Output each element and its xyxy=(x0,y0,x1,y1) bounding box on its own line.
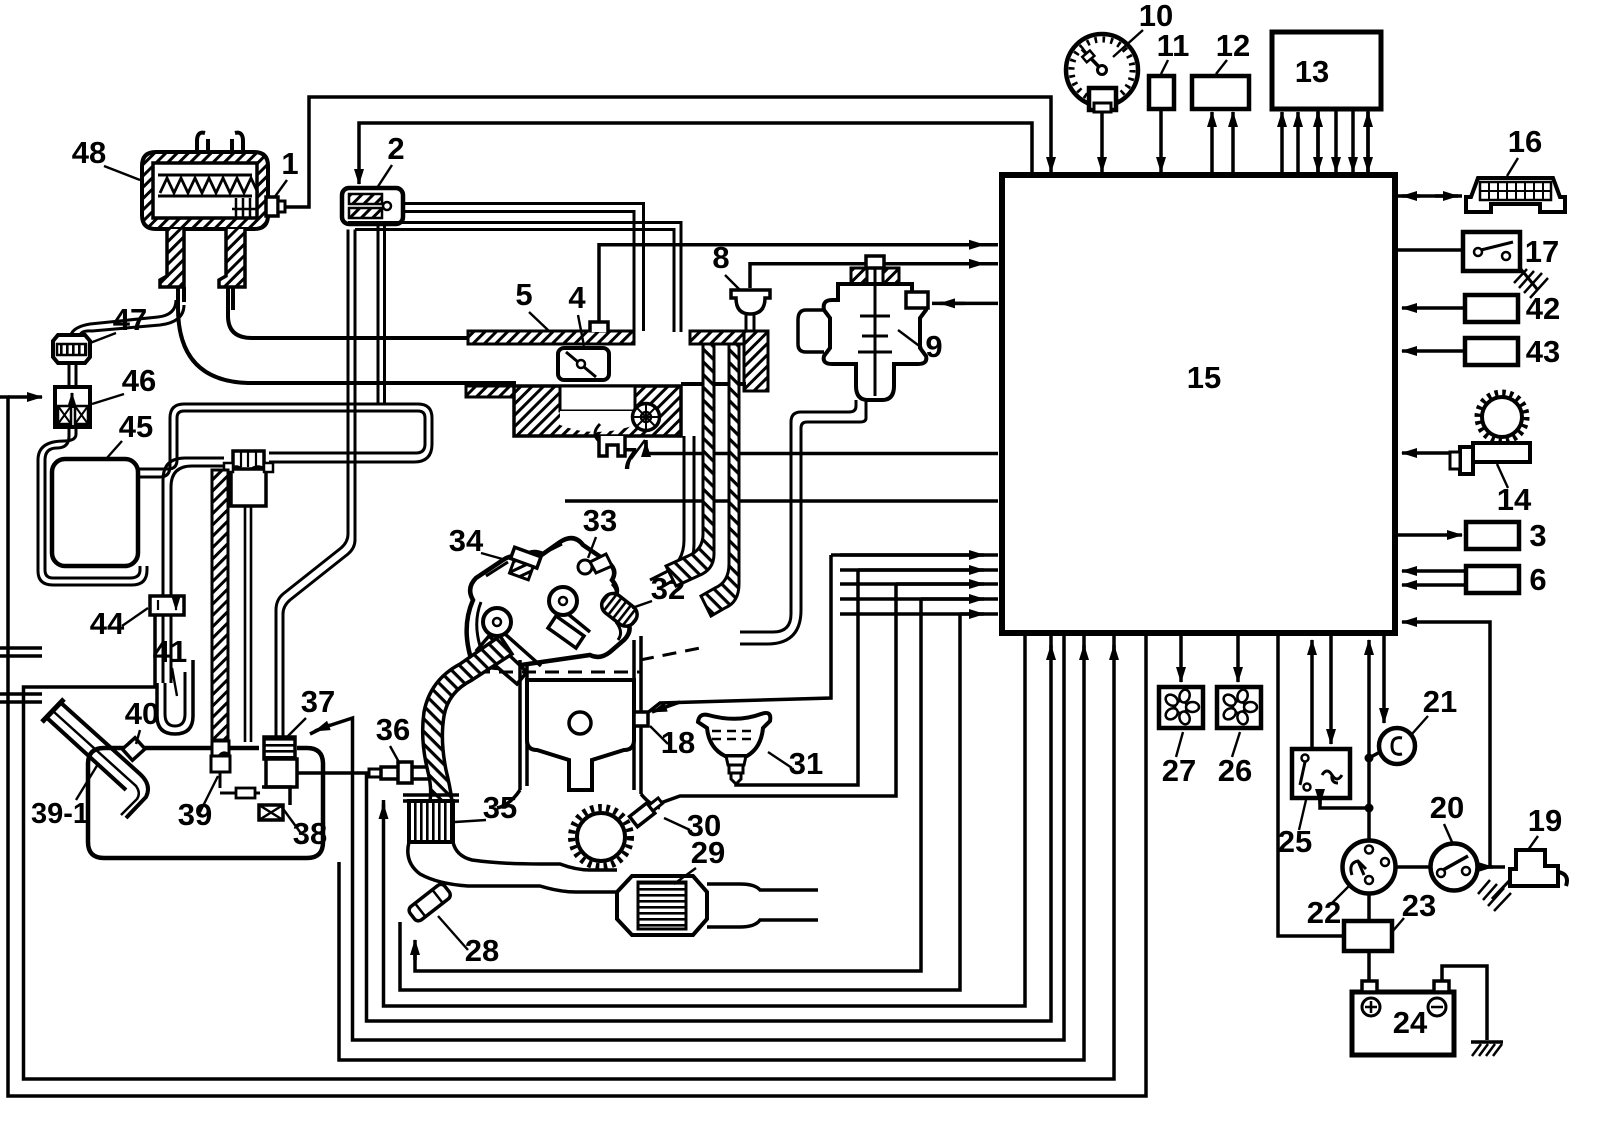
svg-text:41: 41 xyxy=(153,634,187,669)
wire ECU to horn21 xyxy=(1382,636,1386,723)
wire relay25 to ECU xyxy=(1310,640,1314,749)
hose hatched to sender area xyxy=(212,470,228,740)
oil pan sensor 31 xyxy=(698,713,770,784)
wire 14 to ECU xyxy=(1402,451,1450,455)
wire bundle fuel pump feed xyxy=(1049,645,1053,660)
valve 44 xyxy=(150,596,184,615)
wire ECU-17 xyxy=(1398,248,1463,252)
rocker circles xyxy=(483,608,511,636)
svg-text:26: 26 xyxy=(1218,753,1252,788)
starter switch 20 xyxy=(1431,844,1478,891)
exhaust tail pipe xyxy=(707,884,818,927)
injector 33 xyxy=(578,554,612,574)
svg-text:24: 24 xyxy=(1393,1005,1428,1040)
wire 11 to ECU xyxy=(1159,109,1163,172)
pipe comp2 down xyxy=(378,224,385,404)
wire 20-19 with arrow xyxy=(1478,865,1505,869)
box 11 xyxy=(1149,76,1174,109)
filler pipe 39-1 xyxy=(42,699,148,818)
pipe 47-46 xyxy=(69,363,76,387)
ECU control unit 15 xyxy=(1002,175,1395,633)
intake runner hatched 2 xyxy=(701,344,739,616)
vapor tank 45 xyxy=(52,459,138,566)
svg-text:2: 2 xyxy=(387,131,404,166)
comp 1 purge valve connector xyxy=(266,197,278,216)
svg-text:40: 40 xyxy=(125,696,159,731)
wire throttle sensor to ECU xyxy=(565,499,998,503)
fuel level sender 39 xyxy=(211,741,230,788)
cap sensor 40 xyxy=(122,738,145,761)
fan 27 xyxy=(1159,687,1203,728)
svg-text:21: 21 xyxy=(1423,684,1457,719)
fuel pipe regulator down xyxy=(740,400,866,644)
svg-text:33: 33 xyxy=(583,503,617,538)
svg-text:25: 25 xyxy=(1278,824,1312,859)
wire idle valve7 to ECU xyxy=(646,440,998,454)
starter 19 xyxy=(1510,850,1567,886)
svg-text:3: 3 xyxy=(1529,518,1546,553)
ground battery xyxy=(1471,1040,1503,1044)
pipe 44 to 41 xyxy=(163,615,171,683)
fan 26 xyxy=(1217,687,1261,728)
wire ECU to regulator9 xyxy=(932,302,998,306)
svg-text:35: 35 xyxy=(483,790,517,825)
ignition switch 22 xyxy=(1343,841,1396,894)
pipe bridge right leg to coupling xyxy=(269,444,432,462)
hose stub B xyxy=(0,694,42,702)
wire 43 to ECU xyxy=(1402,349,1465,353)
battery 24 xyxy=(1352,981,1454,1055)
wire 28 signal to ECU xyxy=(415,599,998,971)
wire valve8 to ECU xyxy=(750,264,998,288)
air temp sensor 5 tab xyxy=(590,322,608,332)
wire bundle ECU to 46 xyxy=(0,397,1146,1096)
idle air valve 7 xyxy=(633,404,660,431)
svg-text:12: 12 xyxy=(1216,28,1250,63)
svg-text:9: 9 xyxy=(925,329,942,364)
fuel line pump to rail xyxy=(276,230,355,738)
crank sensor 30 xyxy=(629,796,664,827)
wire 22 to 23 xyxy=(1367,894,1371,921)
box 6 xyxy=(1466,566,1519,593)
engine head cover xyxy=(467,538,630,668)
svg-text:16: 16 xyxy=(1508,124,1542,159)
svg-text:46: 46 xyxy=(122,363,156,398)
main feed wire x1369 xyxy=(1367,640,1371,841)
wire 28 heater to ECU xyxy=(400,614,998,990)
box 23 relay xyxy=(1344,921,1392,951)
diagnostic connector 16 xyxy=(1466,178,1565,212)
fuel rail plenum hatched xyxy=(514,386,681,436)
wire battery to ground xyxy=(1442,966,1487,1040)
svg-text:17: 17 xyxy=(1525,234,1559,269)
wire bundle ECU to 37 xyxy=(310,636,1064,1040)
svg-text:39: 39 xyxy=(178,797,212,832)
throttle sensor 4 xyxy=(558,348,609,380)
box 12 xyxy=(1192,76,1249,109)
fuel line top run xyxy=(348,223,681,333)
wires 6 to ECU (two) xyxy=(1402,569,1466,573)
head cover inner lines xyxy=(477,544,621,646)
wire bundle ECU to 36 xyxy=(384,636,1026,1006)
wire 31 to ECU xyxy=(736,570,998,785)
switch 17 xyxy=(1463,232,1520,271)
svg-text:48: 48 xyxy=(72,135,106,170)
canister 48 xyxy=(142,133,268,287)
wire relay coil to node xyxy=(1320,798,1366,808)
camshaft sensor 14 with toothed wheel xyxy=(1450,393,1530,475)
wire ECU to 3 xyxy=(1398,533,1462,537)
wire comp1 to ECU xyxy=(283,97,1051,207)
relay 25 xyxy=(1292,749,1350,798)
node A xyxy=(1365,754,1374,763)
svg-text:20: 20 xyxy=(1430,790,1464,825)
svg-text:37: 37 xyxy=(301,684,335,719)
knock sensor 18 xyxy=(634,712,648,726)
wire air temp sensor5 to ECU xyxy=(599,245,998,330)
flywheel toothed xyxy=(577,813,625,861)
svg-text:28: 28 xyxy=(465,933,499,968)
wire 42 to ECU xyxy=(1402,306,1465,310)
pipe comp2 rod to rail xyxy=(403,204,644,332)
svg-text:23: 23 xyxy=(1402,888,1436,923)
wire node to horn xyxy=(1369,752,1380,758)
oxygen sensor 28 xyxy=(407,882,452,922)
pipe 45 to bridge xyxy=(138,418,177,477)
catalyst 29 xyxy=(617,876,707,935)
svg-text:15: 15 xyxy=(1187,360,1221,395)
gauge 10 xyxy=(1066,34,1138,112)
box 42 xyxy=(1465,295,1518,322)
svg-text:19: 19 xyxy=(1528,803,1562,838)
air duct from canister bend xyxy=(178,287,516,383)
svg-text:34: 34 xyxy=(449,523,484,558)
duct top wall hatched xyxy=(468,331,634,344)
ignition coil 32 xyxy=(598,589,641,630)
svg-text:36: 36 xyxy=(376,712,410,747)
strainer 38 xyxy=(259,805,283,820)
svg-text:8: 8 xyxy=(712,240,729,275)
wire 23 to battery xyxy=(1367,951,1371,981)
pipe coupling down to tank xyxy=(245,506,251,742)
svg-text:11: 11 xyxy=(1157,28,1190,63)
wire ECU to fan27 xyxy=(1179,636,1183,682)
svg-text:38: 38 xyxy=(293,816,327,851)
comp 2 valve xyxy=(342,188,403,224)
wire ECU pin to 18 bundle xyxy=(646,555,998,714)
pipe filter47 up xyxy=(71,300,184,335)
wire 30 to ECU xyxy=(652,584,998,806)
duct wall right of throttle xyxy=(744,331,768,391)
pipe bridge over xyxy=(170,404,432,444)
node B xyxy=(1365,804,1374,813)
wire ECU-16 bidirectional xyxy=(1398,194,1462,198)
fuel pump 37 xyxy=(262,737,297,805)
sender wire with connector xyxy=(220,792,260,795)
vacuum valve 8 xyxy=(731,290,770,331)
CO adjuster 36 xyxy=(369,762,430,783)
flex section 35 xyxy=(403,795,459,801)
box 43 xyxy=(1465,338,1518,365)
svg-text:4: 4 xyxy=(568,280,586,315)
spark plug 34 xyxy=(506,547,541,581)
svg-text:13: 13 xyxy=(1295,54,1329,89)
svg-text:5: 5 xyxy=(515,277,532,312)
svg-text:1: 1 xyxy=(281,146,298,181)
svg-text:42: 42 xyxy=(1526,291,1560,326)
wire 22-20 xyxy=(1396,865,1430,869)
svg-text:30: 30 xyxy=(687,808,721,843)
cylinder block xyxy=(497,636,660,808)
rail pipe down xyxy=(650,436,694,588)
exhaust downpipe hatched xyxy=(423,636,512,801)
pipe 44 column up xyxy=(163,458,224,598)
horn 21 xyxy=(1379,728,1415,764)
pressure regulator 9 xyxy=(798,256,928,400)
svg-text:14: 14 xyxy=(1497,482,1532,517)
wire ECU to comp2 xyxy=(359,123,1032,184)
duct lower wall strip left of plenum xyxy=(466,386,514,397)
wire bundle tank ground xyxy=(1082,645,1086,660)
wire gauge10 to ECU xyxy=(1100,112,1104,172)
vent loop 41 xyxy=(157,660,193,734)
box 13 xyxy=(1272,32,1381,109)
check valve 46 xyxy=(55,387,90,427)
hose stub A xyxy=(0,648,42,656)
bracket under plenum xyxy=(599,436,625,456)
duct lower wall right of plenum xyxy=(681,382,746,386)
svg-text:27: 27 xyxy=(1162,753,1196,788)
wire bundle ECU to 44 xyxy=(1112,645,1116,660)
intake runner hatched 1 xyxy=(666,344,714,586)
pipe 46 to tank45 xyxy=(38,427,147,585)
svg-text:44: 44 xyxy=(90,606,125,641)
fuel filter 47 xyxy=(53,335,90,363)
wire ECU to relay25 xyxy=(1329,636,1333,744)
svg-text:39-1: 39-1 xyxy=(31,798,89,830)
svg-text:43: 43 xyxy=(1526,334,1560,369)
wire ECU to fan26 xyxy=(1236,636,1240,682)
wires 13-ECU bus xyxy=(1280,112,1284,175)
wire ECU to 12 (two) xyxy=(1210,112,1214,175)
svg-text:45: 45 xyxy=(119,409,153,444)
exhaust pipe to catalyst xyxy=(408,842,617,892)
wire ECU to 23 xyxy=(1278,636,1344,936)
box 3 xyxy=(1466,522,1519,549)
svg-text:6: 6 xyxy=(1529,562,1546,597)
wire ignition feed to ECU xyxy=(1402,622,1490,867)
valves xyxy=(477,634,541,684)
ground at 17 xyxy=(1520,268,1537,289)
fuel tank xyxy=(88,748,323,858)
head gasket dashes xyxy=(476,671,640,674)
vapor separator coupling xyxy=(224,451,273,506)
ground at 19 xyxy=(1492,880,1510,899)
svg-text:31: 31 xyxy=(789,746,823,781)
